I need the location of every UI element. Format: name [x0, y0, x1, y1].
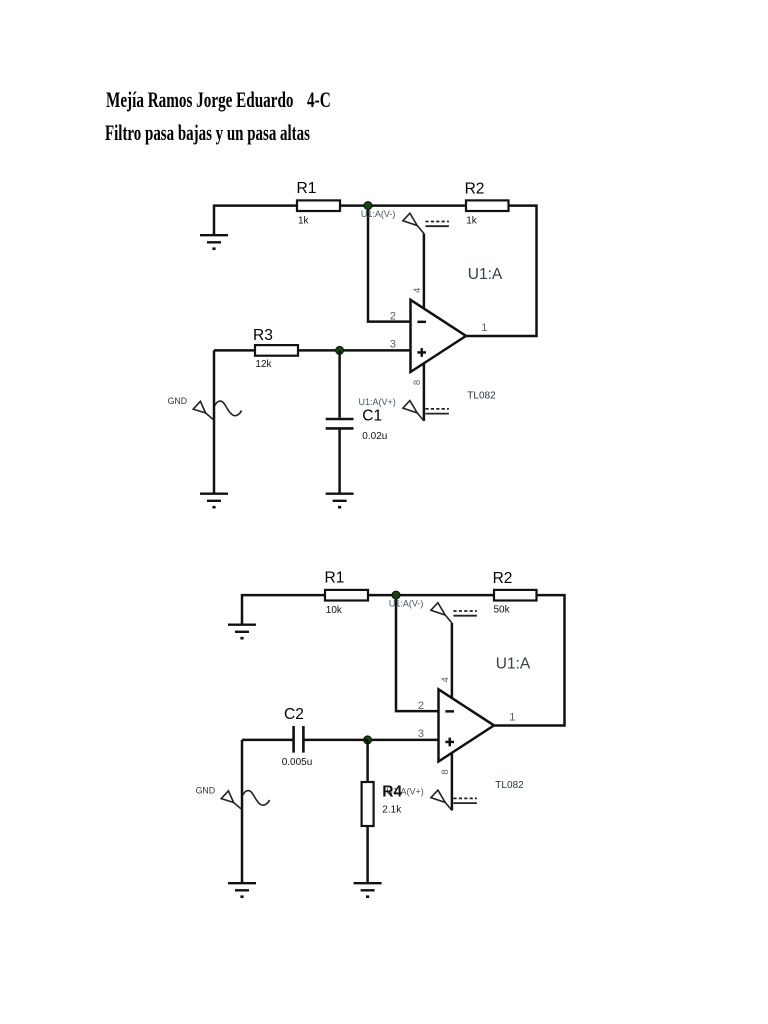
- svg-text:10k: 10k: [326, 605, 343, 616]
- svg-text:C2: C2: [284, 706, 304, 723]
- svg-text:R3: R3: [253, 327, 273, 344]
- svg-text:C1: C1: [362, 408, 382, 425]
- svg-text:2.1k: 2.1k: [382, 804, 402, 815]
- svg-text:1k: 1k: [466, 215, 478, 226]
- svg-text:R4: R4: [382, 784, 402, 801]
- svg-text:50k: 50k: [494, 605, 511, 616]
- svg-text:0.02u: 0.02u: [362, 431, 387, 442]
- svg-text:12k: 12k: [255, 359, 272, 370]
- svg-text:0.005u: 0.005u: [282, 757, 313, 768]
- svg-text:1k: 1k: [298, 215, 310, 226]
